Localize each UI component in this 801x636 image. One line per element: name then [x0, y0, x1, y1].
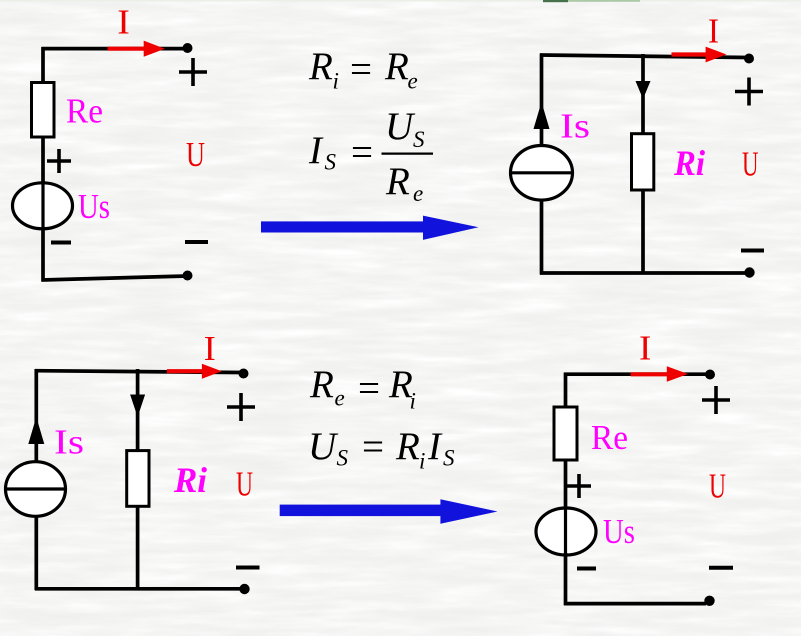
wire top TR: [540, 55, 747, 58]
svg-text:I: I: [427, 425, 443, 468]
svg-text:Us: Us: [603, 512, 635, 551]
svg-text:i: i: [419, 449, 425, 474]
svg-text:Ri: Ri: [673, 143, 705, 183]
svg-text:=: =: [350, 48, 372, 91]
blue arrow top: [261, 216, 479, 240]
svg-text:e: e: [408, 69, 418, 94]
svg-text:R: R: [395, 425, 420, 468]
wire top BR: [564, 372, 707, 376]
svg-text:U: U: [186, 135, 205, 174]
wire BR (source to bottom): [564, 553, 568, 605]
wire through source BR: [564, 509, 567, 554]
resistor Re (TL): [32, 83, 55, 138]
wire left TL (top to resistor): [41, 47, 45, 84]
plus sign at source (TL): [47, 149, 71, 173]
svg-text:R: R: [308, 45, 333, 88]
voltage source Us (BR): [536, 508, 596, 555]
svg-text:i: i: [410, 389, 416, 414]
wire bottom TR: [540, 271, 749, 275]
current source bar (BL): [6, 487, 66, 490]
plus sign BL terminal: [227, 393, 255, 421]
minus sign at source (TL): [51, 241, 71, 245]
svg-text:U: U: [709, 467, 726, 506]
wire bottom BL: [35, 587, 242, 591]
current source Is circle (BL): [6, 462, 66, 517]
arrowhead down on Ri wire (BL): [130, 395, 145, 418]
wire top BL: [35, 371, 240, 373]
fraction bar: [382, 153, 434, 155]
node dot TR top terminal: [744, 54, 754, 64]
plus sign at source (BR): [567, 474, 591, 498]
node dot TR bottom terminal: [744, 267, 754, 277]
equation Re = Ri: [309, 363, 416, 414]
wire through source TL: [41, 183, 44, 229]
wire middle BL (resistor to bottom): [136, 506, 140, 590]
node dot BL top terminal: [239, 369, 249, 379]
wire left BL (source to bottom): [34, 516, 38, 590]
svg-text:S: S: [443, 446, 455, 471]
node dot BL bottom terminal: [239, 584, 249, 594]
svg-text:e: e: [335, 386, 345, 411]
svg-text:=: =: [351, 131, 373, 174]
svg-text:Re: Re: [591, 418, 628, 457]
svg-text:Us: Us: [78, 187, 110, 226]
current arrow I (TL): [108, 41, 165, 57]
svg-text:Is: Is: [54, 423, 84, 462]
wire middle TR (resistor to bottom): [641, 190, 645, 275]
svg-text:Is: Is: [560, 107, 590, 146]
current arrow I (TR): [672, 47, 727, 63]
resistor Ri (TR): [632, 134, 654, 190]
wire middle BL (top to resistor): [136, 369, 140, 452]
svg-text:Re: Re: [66, 92, 103, 131]
svg-text:U: U: [236, 465, 253, 504]
equation Ri = Re: [308, 45, 418, 94]
resistor Re (BR): [554, 407, 577, 460]
svg-text:=: =: [362, 426, 384, 469]
wire top TL: [42, 47, 185, 51]
svg-text:I: I: [639, 329, 651, 368]
svg-text:R: R: [385, 160, 410, 203]
svg-text:R: R: [309, 363, 334, 406]
svg-text:=: =: [358, 367, 380, 410]
plus sign TL terminal: [179, 58, 207, 86]
wire left BR (top to resistor): [564, 373, 568, 410]
svg-text:I: I: [117, 3, 130, 42]
plus sign BR terminal: [702, 386, 730, 414]
svg-text:I: I: [308, 129, 324, 172]
svg-text:e: e: [413, 181, 423, 206]
svg-text:I: I: [708, 12, 719, 51]
svg-text:S: S: [325, 150, 337, 175]
minus sign BL terminal: [236, 566, 260, 570]
svg-text:U: U: [308, 425, 339, 468]
svg-text:Ri: Ri: [173, 460, 207, 500]
plus sign TR terminal: [735, 78, 763, 106]
wire BR (resistor to source): [564, 460, 568, 510]
minus sign TL terminal: [185, 240, 208, 244]
current arrow I (BL): [167, 364, 222, 379]
current source bar (TR): [511, 171, 573, 174]
wire left BL (top to source): [34, 369, 38, 462]
wire left TR (top to source): [540, 54, 544, 147]
arrowhead down on Ri wire (TR): [636, 81, 651, 99]
minus sign BR terminal: [709, 566, 733, 570]
node dot TL bottom terminal: [183, 271, 193, 281]
equation Is = Us/Re: [308, 105, 425, 206]
svg-text:i: i: [333, 69, 339, 94]
node dot BR bottom terminal: [704, 596, 714, 606]
wire left TR (source to bottom): [540, 200, 544, 275]
svg-text:S: S: [413, 127, 425, 152]
arrowhead up on Is wire (TR): [534, 102, 550, 129]
wire middle TR (top to resistor): [641, 54, 645, 135]
wire bottom BR: [564, 602, 706, 606]
arrowhead up on Is wire (BL): [28, 417, 44, 444]
node dot TL top terminal: [183, 43, 193, 53]
resistor Ri (BL): [127, 451, 149, 507]
node dot BR top terminal: [705, 370, 715, 380]
svg-text:S: S: [337, 446, 349, 471]
voltage source Us (TL): [13, 183, 73, 229]
minus sign at source (BR): [577, 567, 596, 571]
svg-text:I: I: [204, 329, 216, 368]
svg-text:R: R: [384, 45, 409, 88]
wire TL (source to bottom): [41, 228, 45, 282]
equation Us = Ri Is: [308, 425, 455, 474]
wire bottom TL: [42, 276, 188, 280]
minus sign TR terminal: [741, 249, 764, 253]
current source Is circle (TR): [511, 146, 573, 201]
svg-text:U: U: [385, 105, 416, 148]
wire TL (resistor to source): [41, 137, 45, 184]
current arrow I (BR): [631, 366, 688, 382]
green edge artifact top: [0, 0, 801, 2]
blue arrow bottom: [280, 499, 498, 524]
svg-text:U: U: [742, 145, 759, 184]
